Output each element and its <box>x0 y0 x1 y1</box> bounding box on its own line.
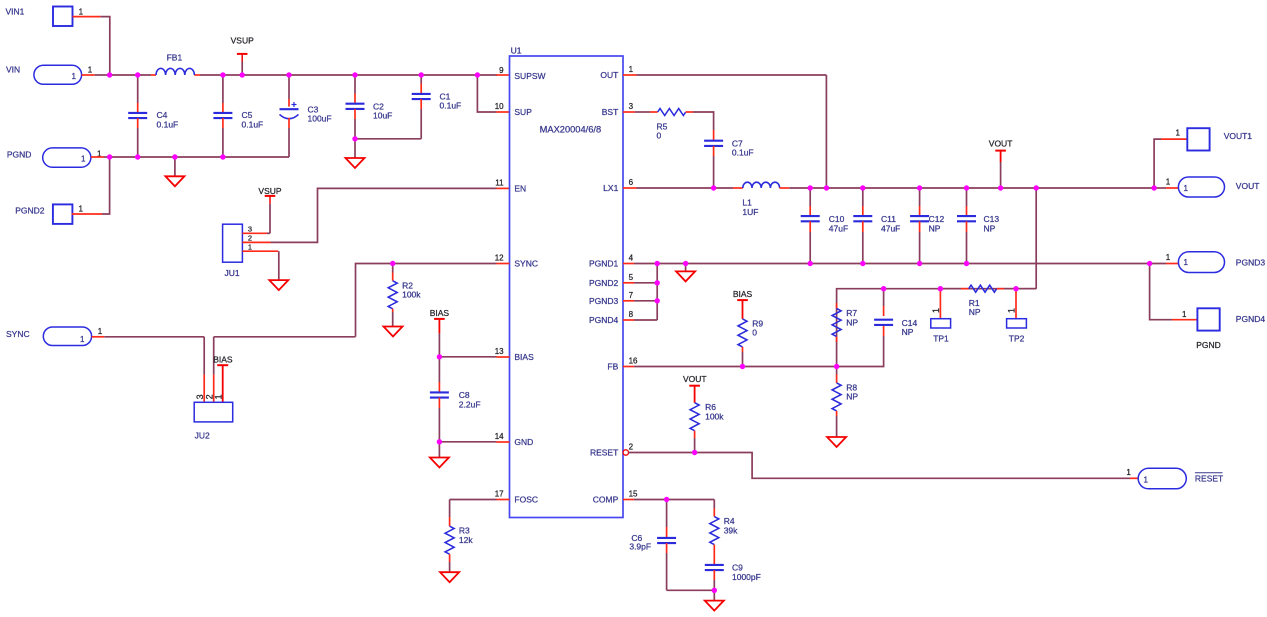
svg-text:PGND3: PGND3 <box>589 296 619 306</box>
capacitor C9 <box>705 553 761 590</box>
svg-text:2: 2 <box>248 234 252 243</box>
power VSUP net 2 <box>258 186 281 233</box>
svg-text:3: 3 <box>248 224 252 233</box>
svg-text:BIAS: BIAS <box>213 355 233 365</box>
svg-text:SYNC: SYNC <box>6 329 30 339</box>
svg-text:7: 7 <box>629 291 634 300</box>
wire VIN stub <box>82 74 110 76</box>
junction C11/PGND <box>860 261 865 266</box>
connector VIN <box>6 65 93 85</box>
junction C14 top <box>881 286 886 291</box>
svg-text:PGND2: PGND2 <box>15 206 45 216</box>
junction C7/LX1 <box>711 185 716 190</box>
svg-text:TP1: TP1 <box>933 334 949 344</box>
svg-text:47uF: 47uF <box>881 224 900 234</box>
svg-text:16: 16 <box>629 357 638 366</box>
svg-text:FB1: FB1 <box>167 53 183 63</box>
junction C9 gnd <box>712 588 717 593</box>
junction C12/PGND <box>917 261 922 266</box>
connector PGND3 <box>1166 252 1266 273</box>
test point TP2 <box>1007 289 1027 344</box>
resistor R6 <box>690 402 724 452</box>
junction gnd/PGND <box>172 154 177 159</box>
svg-text:1: 1 <box>1144 476 1149 485</box>
junction FB node <box>834 364 839 369</box>
svg-text:1: 1 <box>1176 129 1181 138</box>
ground R8 <box>827 437 846 447</box>
svg-text:PGND: PGND <box>1196 340 1221 350</box>
svg-text:BIAS: BIAS <box>430 308 450 318</box>
svg-text:9: 9 <box>499 66 504 75</box>
ground PGND rail <box>165 157 184 186</box>
capacitor C4 <box>128 75 178 157</box>
wire SUP branch <box>477 75 509 112</box>
svg-text:0.1uF: 0.1uF <box>732 148 754 158</box>
wire RESET net <box>629 453 1139 479</box>
svg-text:0: 0 <box>752 328 757 338</box>
wire JU1 pin2 to EN <box>242 188 509 242</box>
svg-text:1: 1 <box>79 204 84 213</box>
svg-text:BIAS: BIAS <box>733 289 753 299</box>
junction C13/PGND <box>964 261 969 266</box>
junction C5/VIN <box>220 72 225 77</box>
wire R5 to C7 <box>686 112 714 141</box>
connector VOUT1 <box>1176 128 1253 150</box>
wire SYNC net <box>92 264 510 337</box>
junction VOUT connectors <box>1151 185 1156 190</box>
svg-text:VIN: VIN <box>6 65 20 75</box>
junction C13/VOUT <box>964 185 969 190</box>
svg-text:MAX20004/6/8: MAX20004/6/8 <box>540 125 602 135</box>
svg-text:15: 15 <box>629 490 638 499</box>
svg-text:1: 1 <box>248 242 252 251</box>
svg-text:FB: FB <box>607 362 618 372</box>
resistor R3 <box>445 517 473 572</box>
svg-text:SUPSW: SUPSW <box>514 71 545 81</box>
wire COMP <box>623 499 714 501</box>
wire PGND rail <box>110 156 289 158</box>
junction C4/PGND <box>135 154 140 159</box>
connector PGND <box>7 148 102 167</box>
wire VIN rail <box>110 74 510 76</box>
wire VOUT rail <box>779 187 1154 189</box>
connector VIN1 <box>6 7 84 27</box>
svg-text:1: 1 <box>79 8 84 17</box>
junction fb tap/VOUT <box>1034 185 1039 190</box>
svg-text:11: 11 <box>495 179 504 188</box>
svg-text:8: 8 <box>629 310 634 319</box>
svg-text:NP: NP <box>929 224 941 234</box>
svg-text:1: 1 <box>1007 308 1017 313</box>
junction R9/FB <box>740 364 745 369</box>
wire VOUT to R1 row <box>1035 188 1037 289</box>
junction R6/RESET <box>692 450 697 455</box>
op-amp U1 MAX20004/6/8 box <box>510 46 624 518</box>
ground R3 <box>440 572 459 582</box>
svg-text:0.1uF: 0.1uF <box>440 101 462 111</box>
svg-text:PGND4: PGND4 <box>589 315 619 325</box>
svg-text:TP2: TP2 <box>1009 334 1025 344</box>
wire BIAS pin13 <box>439 356 509 358</box>
svg-text:COMP: COMP <box>593 495 619 505</box>
svg-text:0: 0 <box>657 131 662 141</box>
junction C10/PGND <box>808 261 813 266</box>
svg-text:2.2uF: 2.2uF <box>459 399 481 409</box>
inductor L1 <box>742 182 779 217</box>
connector PGND2 <box>15 204 83 224</box>
ground R2 <box>384 327 403 337</box>
junction PGND3 bus <box>655 298 660 303</box>
power VOUT at R6 <box>683 374 707 403</box>
capacitor C6 <box>629 500 676 591</box>
svg-text:VOUT: VOUT <box>989 139 1013 149</box>
svg-text:3: 3 <box>629 102 634 111</box>
junction SYNC/R2 <box>390 261 395 266</box>
svg-text:100k: 100k <box>402 290 421 300</box>
svg-text:SYNC: SYNC <box>514 259 538 269</box>
ferrite bead FB1 <box>156 53 194 75</box>
junction C4/VIN <box>135 72 140 77</box>
svg-text:VOUT: VOUT <box>683 374 707 384</box>
junction C2 gnd <box>352 136 357 141</box>
svg-text:1UF: 1UF <box>742 207 758 217</box>
svg-text:1: 1 <box>81 154 86 163</box>
wire to PGND3 <box>1150 263 1179 265</box>
svg-text:13: 13 <box>495 347 504 356</box>
junction PGND2 bus <box>655 280 660 285</box>
wire PGND2 to rail <box>72 157 110 214</box>
junction TP2/row <box>1013 286 1018 291</box>
svg-text:NP: NP <box>846 392 858 402</box>
svg-text:PGND4: PGND4 <box>1236 314 1266 324</box>
wire JU1 pin3 <box>242 232 270 234</box>
svg-text:17: 17 <box>495 490 504 499</box>
power BIAS at R9 <box>733 289 753 319</box>
junction C8/GND <box>437 439 442 444</box>
resistor R9 <box>738 318 763 366</box>
capacitor C3 polarized <box>280 75 332 157</box>
svg-text:BIAS: BIAS <box>514 352 534 362</box>
capacitor C1 <box>412 75 462 139</box>
svg-text:1: 1 <box>1182 310 1187 319</box>
svg-text:1: 1 <box>1166 178 1171 187</box>
junction TP1/row <box>938 286 943 291</box>
capacitor C12 <box>910 188 944 264</box>
junction C1/VIN <box>419 72 424 77</box>
svg-text:12: 12 <box>495 254 504 263</box>
svg-text:1: 1 <box>931 308 941 313</box>
resistor R7 <box>832 303 858 342</box>
svg-text:VSUP: VSUP <box>231 36 254 46</box>
svg-text:100k: 100k <box>705 412 724 422</box>
ground C8 <box>430 442 449 468</box>
svg-text:PGND2: PGND2 <box>589 278 619 288</box>
capacitor C10 <box>801 188 848 264</box>
resistor R1 <box>969 285 997 317</box>
svg-text:39k: 39k <box>724 525 738 535</box>
U1 left pin names and numbers <box>495 66 546 504</box>
resistor R8 <box>832 367 858 438</box>
svg-text:PGND: PGND <box>7 150 32 160</box>
wire OUT to VOUT rail <box>623 75 826 188</box>
wire PGND stub <box>91 156 110 158</box>
connector SYNC <box>6 327 103 346</box>
capacitor C7 <box>704 138 754 188</box>
svg-text:NP: NP <box>846 317 858 327</box>
svg-text:1: 1 <box>629 65 634 74</box>
junction VIN1/VIN <box>107 72 112 77</box>
junction C12/VOUT <box>917 185 922 190</box>
wire GND pin14 <box>439 441 509 443</box>
wire LX1 <box>623 187 743 189</box>
capacitor C14 <box>837 289 918 367</box>
wire C2/C1 ground bus <box>355 139 421 158</box>
wire PGND2-4 bus <box>623 264 657 321</box>
wire to PGND4 <box>1150 264 1198 320</box>
svg-text:1: 1 <box>1166 253 1171 262</box>
junction PGND connectors <box>1147 261 1152 266</box>
svg-text:10uF: 10uF <box>373 110 392 120</box>
junction OUT down/VOUT <box>824 185 829 190</box>
svg-text:NP: NP <box>902 327 914 337</box>
svg-text:0.1uF: 0.1uF <box>157 119 179 129</box>
svg-text:6: 6 <box>629 178 634 187</box>
capacitor C2 <box>346 75 393 139</box>
connector VOUT out <box>1166 177 1260 197</box>
junction BIAS/C8 <box>437 354 442 359</box>
power BIAS at C8 <box>430 308 450 357</box>
junction PGND bus <box>655 261 660 266</box>
wire to VOUT stadium <box>1154 187 1178 189</box>
svg-text:14: 14 <box>495 432 504 441</box>
wire FB <box>623 366 837 368</box>
svg-text:10: 10 <box>495 102 504 111</box>
svg-text:1: 1 <box>1126 468 1131 477</box>
svg-text:3.9pF: 3.9pF <box>629 541 651 551</box>
wire VIN1 to VIN rail <box>73 17 110 75</box>
capacitor C8 <box>430 357 481 442</box>
svg-text:1: 1 <box>214 394 224 399</box>
svg-text:NP: NP <box>969 307 981 317</box>
svg-text:5: 5 <box>629 273 634 282</box>
wire C6/C9 ground bus <box>667 589 715 591</box>
junction SUP branch <box>475 72 480 77</box>
test point TP1 <box>931 289 951 344</box>
wire PGND rail right <box>623 263 1150 265</box>
wire FOSC <box>450 500 510 518</box>
svg-text:47uF: 47uF <box>829 224 848 234</box>
resistor R2 <box>388 264 421 327</box>
junction gnd/PGND rail <box>683 261 688 266</box>
power BIAS at JU2 <box>213 355 233 403</box>
junction C11/VOUT <box>860 185 865 190</box>
junction C10/VOUT <box>808 185 813 190</box>
svg-text:0.1uF: 0.1uF <box>242 119 264 129</box>
svg-text:VSUP: VSUP <box>258 186 281 196</box>
svg-text:VIN1: VIN1 <box>6 7 25 17</box>
svg-text:1000pF: 1000pF <box>732 572 761 582</box>
junction C6/COMP <box>664 497 669 502</box>
svg-text:1: 1 <box>80 335 85 344</box>
wire BST <box>623 111 658 113</box>
wire R1 row <box>837 289 1037 367</box>
svg-text:4: 4 <box>629 254 634 263</box>
svg-text:NP: NP <box>984 224 996 234</box>
svg-text:JU1: JU1 <box>225 268 240 278</box>
svg-text:FOSC: FOSC <box>514 495 538 505</box>
svg-text:PGND3: PGND3 <box>1236 258 1266 268</box>
junction VSUP/VIN <box>240 72 245 77</box>
junction PGND/PGND2 <box>107 154 112 159</box>
resistor R4 <box>710 500 738 554</box>
jumper JU1 <box>223 224 252 278</box>
svg-text:1: 1 <box>72 72 77 81</box>
resistor R5 <box>657 109 686 141</box>
svg-text:RESET: RESET <box>590 448 618 458</box>
wire JU2 pin2 drop <box>213 337 215 403</box>
wire R1 to TP2 <box>997 288 1036 290</box>
junction C5/PGND <box>220 154 225 159</box>
svg-text:VOUT1: VOUT1 <box>1224 131 1253 141</box>
wire JU2 pin3 drop <box>203 337 205 403</box>
svg-text:1: 1 <box>1184 184 1189 193</box>
power VSUP net 1 <box>231 36 254 76</box>
junction VOUT sym/rail <box>998 185 1003 190</box>
svg-text:100uF: 100uF <box>308 113 332 123</box>
svg-text:PGND1: PGND1 <box>589 259 619 269</box>
wire R1 lead <box>940 288 968 290</box>
capacitor C11 <box>853 188 900 264</box>
wire JU1 pin1 to ground <box>242 251 278 280</box>
svg-text:LX1: LX1 <box>603 183 618 193</box>
ground JU1 pin1 <box>269 280 288 290</box>
ground COMP <box>705 590 724 610</box>
svg-text:1: 1 <box>98 327 103 336</box>
svg-text:U1: U1 <box>511 46 522 56</box>
svg-text:SUP: SUP <box>514 107 532 117</box>
svg-text:1: 1 <box>1184 258 1189 267</box>
wire to VOUT1 <box>1154 139 1187 188</box>
capacitor C13 <box>957 188 999 264</box>
svg-text:12k: 12k <box>459 535 473 545</box>
jumper JU2 <box>194 394 233 440</box>
U1 RESET bubble <box>623 450 628 455</box>
connector RESET out <box>1126 468 1223 489</box>
svg-text:VOUT: VOUT <box>1236 181 1260 191</box>
svg-text:JU2: JU2 <box>195 431 210 441</box>
junction C3/VIN <box>286 72 291 77</box>
connector PGND4 <box>1182 308 1265 350</box>
svg-text:1: 1 <box>88 65 93 74</box>
svg-text:GND: GND <box>514 437 533 447</box>
svg-text:OUT: OUT <box>600 70 618 80</box>
svg-text:2: 2 <box>629 443 634 452</box>
svg-text:BST: BST <box>602 107 619 117</box>
ground C2/C1 <box>346 158 365 168</box>
svg-text:3: 3 <box>195 394 205 399</box>
U1 right pin names and numbers <box>589 65 638 504</box>
junction C2/VIN <box>352 72 357 77</box>
ground PGND rail right <box>676 264 695 282</box>
capacitor C5 <box>213 75 263 157</box>
svg-text:EN: EN <box>514 183 526 193</box>
svg-text:RESET: RESET <box>1195 474 1223 484</box>
power VOUT at rail <box>989 139 1013 188</box>
